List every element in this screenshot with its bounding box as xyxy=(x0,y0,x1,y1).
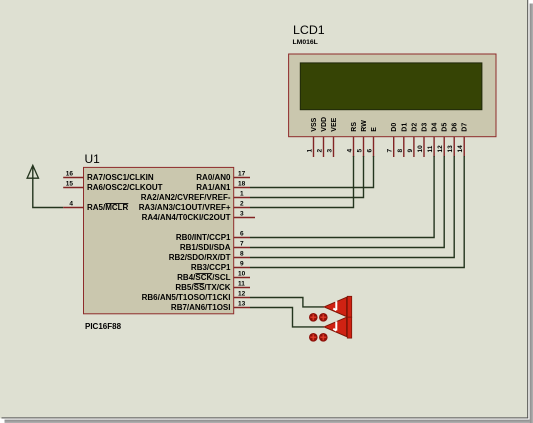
wire RA1/AN1 to LCD E xyxy=(250,156,374,188)
LCD1 screen xyxy=(300,63,482,110)
LCD1 pin 6 E xyxy=(367,127,379,157)
svg-text:4: 4 xyxy=(347,149,354,153)
LED D1 xyxy=(324,296,352,317)
LCD1 pin 7 D0 xyxy=(387,123,399,157)
svg-text:E: E xyxy=(371,127,378,132)
svg-text:RA6/OSC2/CLKOUT: RA6/OSC2/CLKOUT xyxy=(87,183,163,192)
svg-text:11: 11 xyxy=(238,281,245,288)
svg-text:9: 9 xyxy=(240,261,244,268)
svg-text:7: 7 xyxy=(240,241,244,248)
U1 pin 8 RB2/SDO/RX/DT xyxy=(169,251,250,263)
svg-text:2: 2 xyxy=(240,201,244,208)
svg-text:RB2/SDO/RX/DT: RB2/SDO/RX/DT xyxy=(169,253,231,262)
U1 pin 11 RB5/SS/TX/CK xyxy=(175,281,250,293)
svg-text:13: 13 xyxy=(447,145,454,153)
svg-text:D1: D1 xyxy=(401,123,408,132)
svg-text:4: 4 xyxy=(69,201,73,208)
svg-text:D6: D6 xyxy=(452,123,459,132)
wire power terminal to RA5/MCLR xyxy=(33,166,63,208)
svg-text:6: 6 xyxy=(367,149,374,153)
svg-text:RA7/OSC1/CLKIN: RA7/OSC1/CLKIN xyxy=(87,173,154,182)
frame border bottom edge xyxy=(0,417,530,423)
U1 pin 9 RB3/CCP1 xyxy=(191,261,250,273)
svg-text:10: 10 xyxy=(238,271,246,278)
wire RB2 to LCD D6 xyxy=(250,156,454,258)
svg-text:D3: D3 xyxy=(422,123,429,132)
svg-text:RA3/AN3/C1OUT/VREF+: RA3/AN3/C1OUT/VREF+ xyxy=(139,203,231,212)
U1 pin 1 RA2/AN2/CVREF/VREF- xyxy=(141,191,250,203)
U1 pin 17 RA0/AN0 xyxy=(196,171,250,183)
svg-text:9: 9 xyxy=(407,149,414,153)
svg-text:D5: D5 xyxy=(442,123,449,132)
LCD1 pin 4 RS xyxy=(347,122,359,157)
LCD1 pin 9 D2 xyxy=(407,123,419,157)
svg-text:RA0/AN0: RA0/AN0 xyxy=(196,173,231,182)
IC U1 body xyxy=(84,167,234,313)
svg-text:18: 18 xyxy=(238,181,246,188)
U1 pin 18 RA1/AN1 xyxy=(196,181,250,193)
svg-text:RA2/AN2/CVREF/VREF-: RA2/AN2/CVREF/VREF- xyxy=(141,193,231,202)
svg-text:RA4/AN4/T0CKI/C2OUT: RA4/AN4/T0CKI/C2OUT xyxy=(142,213,231,222)
svg-text:6: 6 xyxy=(240,231,244,238)
frame border right edge xyxy=(527,0,533,423)
LED D1 emission arrows xyxy=(309,313,328,322)
svg-text:1: 1 xyxy=(240,191,244,198)
LCD1 pin 5 RW xyxy=(357,120,369,157)
U1 pin 12 RB6/AN5/T1OSO/T1CKI xyxy=(142,291,250,303)
svg-text:13: 13 xyxy=(238,301,246,308)
U1 pin 15 RA6/OSC2/CLKOUT xyxy=(63,181,162,193)
svg-text:RB3/CCP1: RB3/CCP1 xyxy=(191,263,231,272)
svg-text:12: 12 xyxy=(238,291,246,298)
svg-text:D4: D4 xyxy=(432,123,439,132)
svg-text:RA5/MCLR: RA5/MCLR xyxy=(87,203,129,212)
svg-text:8: 8 xyxy=(240,251,244,258)
svg-text:8: 8 xyxy=(397,149,404,153)
svg-text:RB6/AN5/T1OSO/T1CKI: RB6/AN5/T1OSO/T1CKI xyxy=(142,293,231,302)
U1 pin 10 RB4/SCK/SCL xyxy=(177,271,250,283)
LCD LCD1 body xyxy=(289,54,496,137)
svg-text:PIC16F88: PIC16F88 xyxy=(85,322,122,331)
svg-text:7: 7 xyxy=(387,149,394,153)
U1 pin 13 RB7/AN6/T1OSI xyxy=(171,301,250,313)
svg-text:3: 3 xyxy=(240,211,244,218)
svg-text:RB5/SS/TX/CK: RB5/SS/TX/CK xyxy=(175,283,230,292)
U1 pin 2 RA3/AN3/C1OUT/VREF+ xyxy=(139,201,250,213)
wire RB7 to LED D2 anode xyxy=(250,308,324,327)
U1 pin 3 RA4/AN4/T0CKI/C2OUT xyxy=(142,211,255,223)
U1 pin 7 RB1/SDI/SDA xyxy=(180,241,250,253)
LCD1 pin 13 D6 xyxy=(447,123,459,157)
svg-text:D7: D7 xyxy=(462,123,469,132)
svg-text:15: 15 xyxy=(66,181,74,188)
svg-text:VSS: VSS xyxy=(311,117,318,131)
wire RB3 to LCD D7 xyxy=(250,156,464,268)
LCD1 pin 1 VSS xyxy=(307,117,319,157)
LED D2 xyxy=(324,317,352,338)
svg-text:2: 2 xyxy=(317,149,324,153)
svg-text:RB7/AN6/T1OSI: RB7/AN6/T1OSI xyxy=(171,303,231,312)
svg-text:14: 14 xyxy=(457,145,464,153)
svg-text:17: 17 xyxy=(238,171,246,178)
svg-text:10: 10 xyxy=(417,145,424,153)
svg-text:12: 12 xyxy=(437,145,444,153)
LCD1 pin 3 VEE xyxy=(327,117,339,157)
svg-text:RA1/AN1: RA1/AN1 xyxy=(196,183,231,192)
power terminal arrow xyxy=(27,165,38,178)
U1 pin 6 RB0/INT/CCP1 xyxy=(176,231,250,243)
LED D2 emission arrows xyxy=(309,333,328,342)
LCD1 pin 11 D4 xyxy=(427,123,439,157)
wire RA3/AN3 to LCD RS xyxy=(250,156,354,208)
LCD1 pin 8 D1 xyxy=(397,123,409,157)
svg-text:RB4/SCK/SCL: RB4/SCK/SCL xyxy=(177,273,230,282)
wire RB1 to LCD D5 xyxy=(250,156,444,248)
svg-text:RB0/INT/CCP1: RB0/INT/CCP1 xyxy=(176,233,231,242)
svg-text:RW: RW xyxy=(361,120,368,132)
svg-text:1: 1 xyxy=(307,149,314,153)
LCD1 pin 12 D5 xyxy=(437,123,449,157)
svg-text:U1: U1 xyxy=(85,152,101,166)
svg-text:D0: D0 xyxy=(391,123,398,132)
svg-text:VDD: VDD xyxy=(321,117,328,132)
svg-text:LM016L: LM016L xyxy=(293,39,318,46)
LCD1 pin 2 VDD xyxy=(317,117,329,157)
U1 pin 4 RA5/MCLR xyxy=(63,201,128,213)
LCD1 pin 14 D7 xyxy=(457,123,469,157)
svg-text:RS: RS xyxy=(351,122,358,132)
svg-text:5: 5 xyxy=(357,149,364,153)
wire RB0 to LCD D4 xyxy=(250,156,434,238)
svg-text:D2: D2 xyxy=(411,123,418,132)
svg-text:11: 11 xyxy=(427,145,434,152)
svg-text:VEE: VEE xyxy=(331,117,338,131)
LCD1 pin 10 D3 xyxy=(417,123,429,157)
svg-text:RB1/SDI/SDA: RB1/SDI/SDA xyxy=(180,243,231,252)
svg-text:LCD1: LCD1 xyxy=(293,23,325,37)
U1 pin 16 RA7/OSC1/CLKIN xyxy=(63,171,154,183)
wire RA2/AN2 to LCD RW xyxy=(250,156,364,198)
wire RB6 to LED D1 anode xyxy=(250,298,324,307)
svg-text:16: 16 xyxy=(66,171,74,178)
svg-text:3: 3 xyxy=(327,149,334,153)
